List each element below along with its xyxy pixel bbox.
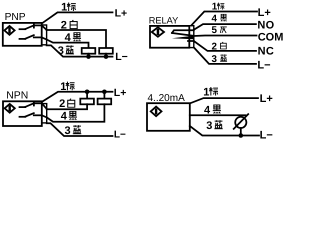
wire 1 (brown) to L+ (192, 12, 258, 26)
junction node meter/L- (239, 133, 244, 138)
proximity sensor symbol (diamond) (152, 27, 164, 36)
junction node wire4/L- (86, 54, 91, 59)
wire 2 (white) (47, 30, 106, 48)
svg-text:3: 3 (65, 125, 71, 137)
hanzi hei (black) (69, 111, 77, 120)
hanzi bai (white) (68, 99, 75, 108)
NC contact (top switch) (20, 28, 26, 30)
svg-text:1: 1 (203, 87, 209, 99)
wire 1 (brown) to L+ (42, 92, 113, 102)
svg-text:4..20mA: 4..20mA (148, 93, 186, 104)
hanzi zong (brown) (66, 82, 75, 91)
svg-text:2: 2 (59, 98, 65, 110)
svg-text:L−: L− (115, 51, 128, 63)
svg-text:PNP: PNP (5, 12, 26, 23)
hanzi zong (brown) (209, 87, 218, 96)
svg-text:1: 1 (60, 81, 66, 93)
cable connector of PNP box (42, 25, 47, 45)
svg-text:L+: L+ (260, 93, 273, 105)
junction node load2/L+ (102, 90, 107, 95)
hanzi lan (blue) (65, 45, 74, 54)
svg-text:3: 3 (212, 54, 218, 65)
wire 4 (black) (47, 104, 105, 121)
svg-text:NPN: NPN (6, 90, 28, 101)
wire 5 (gray) to COM (194, 35, 257, 38)
proximity sensor symbol (diamond) (151, 107, 162, 117)
hanzi zong (brown) (67, 2, 76, 11)
svg-text:NO: NO (257, 19, 274, 31)
wire 4 (black) (190, 114, 246, 116)
sensor box NPN (3, 101, 42, 126)
wire 2 (white) (47, 104, 87, 109)
hanzi hui (gray) (220, 27, 227, 33)
svg-text:RELAY: RELAY (149, 16, 178, 26)
load on wire 4 (82, 48, 96, 54)
hanzi hei (black) (73, 33, 81, 42)
wire 3 (blue) to L- (47, 45, 113, 56)
sensor box 4..20mA (147, 103, 190, 131)
svg-text:L−: L− (257, 59, 270, 71)
sensor box PNP (3, 23, 42, 46)
relay contact NC stub (188, 40, 194, 42)
hanzi hei (black) (213, 105, 221, 114)
junction node wire2/L- (104, 54, 109, 59)
svg-text:L+: L+ (115, 8, 128, 20)
wire 2 (white) to NC (194, 41, 256, 51)
hanzi bai (white) (70, 20, 77, 29)
svg-text:L+: L+ (114, 87, 127, 99)
hanzi lan (blue) (214, 120, 223, 129)
svg-text:1: 1 (212, 2, 218, 13)
relay contact NO line (172, 30, 194, 33)
svg-text:L−: L− (114, 130, 126, 141)
wire 3 (blue) to L- (47, 123, 113, 136)
svg-text:3: 3 (58, 45, 64, 57)
svg-text:COM: COM (258, 32, 284, 44)
hanzi bai (white) (221, 42, 227, 49)
sensor box RELAY (150, 26, 189, 48)
svg-text:L+: L+ (258, 7, 271, 19)
svg-text:1: 1 (61, 2, 67, 14)
wire 1 (brown) to L+ (190, 98, 258, 103)
proximity sensor symbol (diamond) (4, 26, 14, 35)
svg-text:4: 4 (212, 13, 218, 24)
wire 4 (black) to NO (194, 24, 256, 30)
NO contact (bottom switch) (20, 38, 26, 40)
hanzi hei (black) (220, 14, 227, 21)
hanzi lan (blue) (73, 125, 82, 134)
cable connector of NPN box (42, 104, 47, 123)
wire from meter to L- (240, 128, 242, 136)
load on wire 2 (99, 48, 113, 54)
load on wire 4 (103, 92, 105, 99)
wire 3 (blue) to L- (190, 126, 259, 136)
junction node load1/L+ (85, 90, 90, 95)
svg-text:L−: L− (260, 129, 273, 141)
svg-text:4: 4 (65, 32, 72, 44)
relay contact COM wedge (172, 36, 194, 40)
svg-text:4: 4 (61, 111, 68, 123)
relay contact lever (172, 33, 193, 36)
proximity sensor symbol (diamond) (5, 104, 15, 113)
svg-text:2: 2 (212, 41, 218, 52)
wire 4 (black) (47, 40, 89, 49)
svg-text:3: 3 (206, 120, 212, 132)
wire 1 (brown) to L+ (42, 12, 113, 23)
wire 3 (blue) to L- (194, 47, 256, 64)
cable connector of RELAY box (189, 26, 194, 48)
load on wire 2 (86, 92, 88, 99)
NC contact (top switch) (20, 106, 26, 108)
hanzi zong (brown) (217, 3, 224, 10)
hanzi lan (blue) (220, 54, 227, 61)
svg-text:2: 2 (61, 20, 67, 32)
svg-text:4: 4 (204, 104, 211, 116)
current meter / load circle (235, 117, 246, 128)
meter diagonal arrow (234, 114, 249, 129)
svg-text:5: 5 (212, 25, 218, 36)
svg-text:NC: NC (258, 46, 275, 58)
NO contact (bottom switch) (20, 116, 26, 118)
